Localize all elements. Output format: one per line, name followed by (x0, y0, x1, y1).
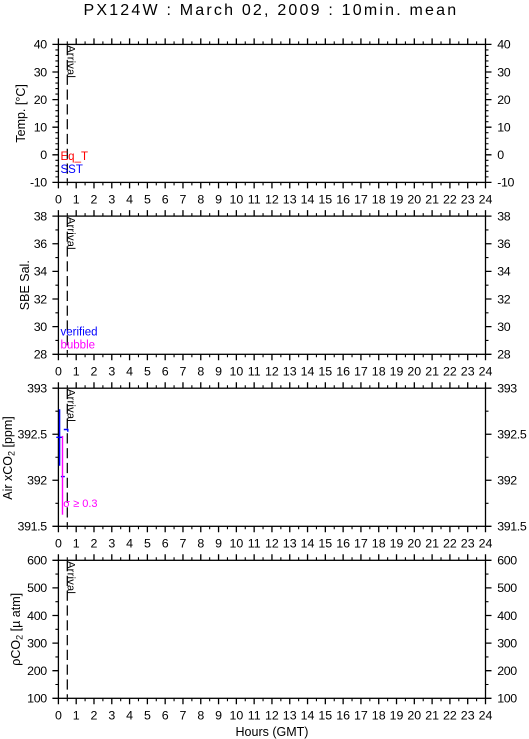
svg-text:14: 14 (301, 365, 315, 379)
svg-text:18: 18 (372, 709, 386, 723)
subplot 3 bottom axis major+minor x ticks (58, 526, 485, 532)
svg-text:Eq_T: Eq_T (61, 151, 89, 163)
svg-text:2: 2 (91, 365, 98, 379)
svg-text:3: 3 (108, 365, 115, 379)
subplot 3 left y tick labels (18, 382, 48, 534)
svg-text:3: 3 (108, 193, 115, 207)
svg-text:Hours (GMT): Hours (GMT) (236, 725, 309, 739)
svg-text:2: 2 (91, 193, 98, 207)
svg-text:10: 10 (34, 121, 48, 135)
svg-text:392: 392 (27, 474, 47, 488)
svg-text:0: 0 (55, 365, 62, 379)
svg-text:393: 393 (27, 382, 47, 396)
svg-text:Arrival: Arrival (64, 45, 76, 78)
svg-text:2: 2 (91, 537, 98, 551)
svg-text:9: 9 (215, 193, 222, 207)
svg-text:σ ≥ 0.3: σ ≥ 0.3 (63, 498, 97, 510)
svg-text:18: 18 (372, 537, 386, 551)
subplot 1 arrival dashed vertical line (66, 45, 68, 182)
subplot 4 right y tick labels (497, 554, 517, 706)
subplot 2 right y tick labels (497, 209, 511, 361)
subplot 4 x tick labels row (55, 709, 493, 723)
svg-text:ρCO2 [µ atm]: ρCO2 [µ atm] (9, 593, 25, 666)
svg-text:3: 3 (108, 709, 115, 723)
svg-text:200: 200 (27, 664, 47, 678)
svg-text:16: 16 (336, 537, 350, 551)
svg-text:23: 23 (461, 537, 475, 551)
svg-text:500: 500 (27, 581, 47, 595)
svg-text:10: 10 (497, 121, 511, 135)
subplot 1 bottom axis major+minor x ticks (58, 182, 485, 188)
svg-text:4: 4 (126, 709, 133, 723)
svg-text:verified: verified (61, 327, 98, 339)
svg-text:8: 8 (197, 537, 204, 551)
svg-text:10: 10 (230, 709, 244, 723)
svg-text:Arrival: Arrival (64, 217, 76, 250)
svg-text:15: 15 (318, 365, 332, 379)
svg-text:Arrival: Arrival (64, 389, 76, 422)
subplot 3 y major ticks (52, 388, 491, 526)
svg-text:24: 24 (479, 365, 493, 379)
svg-text:40: 40 (497, 38, 511, 52)
subplot 2 left y tick labels (34, 209, 48, 361)
svg-text:23: 23 (461, 193, 475, 207)
svg-text:22: 22 (443, 709, 457, 723)
svg-text:2: 2 (91, 709, 98, 723)
svg-text:21: 21 (425, 537, 439, 551)
svg-text:9: 9 (215, 709, 222, 723)
svg-text:10: 10 (230, 365, 244, 379)
svg-text:28: 28 (497, 348, 511, 362)
svg-text:391.5: 391.5 (497, 520, 527, 534)
subplot 3 frame (58, 388, 485, 526)
svg-text:0: 0 (55, 537, 62, 551)
svg-text:38: 38 (497, 209, 511, 223)
svg-text:24: 24 (479, 193, 493, 207)
svg-text:30: 30 (34, 320, 48, 334)
svg-text:600: 600 (497, 554, 517, 568)
svg-text:3: 3 (108, 537, 115, 551)
subplot 4 frame (58, 560, 485, 698)
subplot 3 magenta flagged data trace (62, 436, 64, 515)
svg-text:22: 22 (443, 365, 457, 379)
svg-text:6: 6 (162, 709, 169, 723)
svg-text:20: 20 (34, 93, 48, 107)
svg-text:13: 13 (283, 537, 297, 551)
svg-text:12: 12 (265, 193, 279, 207)
svg-text:12: 12 (265, 365, 279, 379)
svg-text:11: 11 (248, 193, 261, 207)
subplot 2 top axis major+minor x ticks (58, 210, 485, 216)
subplot 3 arrival dashed vertical line (66, 389, 68, 526)
svg-text:392.5: 392.5 (18, 428, 48, 442)
svg-text:4: 4 (126, 537, 133, 551)
subplot 1 x tick labels row (55, 193, 493, 207)
subplot 3 blue xCO2 data trace (56, 409, 68, 476)
subplot 1 y minor ticks (55, 50, 488, 177)
svg-text:32: 32 (34, 292, 48, 306)
svg-text:21: 21 (425, 365, 439, 379)
subplot 1 top axis major+minor x ticks (58, 38, 485, 44)
svg-text:0: 0 (40, 148, 47, 162)
svg-text:Air xCO2 [ppm]: Air xCO2 [ppm] (1, 416, 16, 500)
svg-text:17: 17 (354, 365, 368, 379)
svg-text:40: 40 (34, 38, 48, 52)
svg-text:16: 16 (336, 709, 350, 723)
svg-text:bubble: bubble (61, 340, 96, 352)
svg-text:1: 1 (73, 709, 80, 723)
svg-text:7: 7 (180, 193, 187, 207)
svg-text:300: 300 (27, 636, 47, 650)
subplot 2 bottom axis major+minor x ticks (58, 354, 485, 360)
svg-text:9: 9 (215, 537, 222, 551)
svg-text:5: 5 (144, 709, 151, 723)
svg-text:SBE Sal.: SBE Sal. (18, 260, 32, 310)
svg-text:1: 1 (73, 193, 80, 207)
svg-text:18: 18 (372, 365, 386, 379)
svg-text:32: 32 (497, 292, 511, 306)
svg-text:16: 16 (336, 365, 350, 379)
svg-text:13: 13 (283, 709, 297, 723)
svg-text:400: 400 (497, 609, 517, 623)
svg-text:20: 20 (407, 365, 421, 379)
svg-text:0: 0 (55, 193, 62, 207)
subplot 2 arrival dashed vertical line (66, 217, 68, 354)
subplot 4 top axis major+minor x ticks (58, 554, 485, 560)
svg-text:36: 36 (34, 237, 48, 251)
subplot 2 frame (58, 216, 485, 354)
svg-text:8: 8 (197, 365, 204, 379)
svg-text:200: 200 (497, 664, 517, 678)
svg-text:6: 6 (162, 193, 169, 207)
svg-text:PX124W : March 02, 2009 : 10mi: PX124W : March 02, 2009 : 10min. mean (83, 2, 458, 19)
svg-text:0: 0 (497, 148, 504, 162)
subplot 4 left y tick labels (27, 554, 47, 706)
subplot 3 x tick labels row (55, 537, 493, 551)
svg-text:11: 11 (248, 365, 261, 379)
svg-text:30: 30 (34, 65, 48, 79)
svg-text:14: 14 (301, 709, 315, 723)
svg-text:12: 12 (265, 709, 279, 723)
svg-text:23: 23 (461, 709, 475, 723)
svg-text:17: 17 (354, 709, 368, 723)
svg-text:10: 10 (230, 193, 244, 207)
svg-text:34: 34 (497, 265, 511, 279)
svg-text:15: 15 (318, 537, 332, 551)
svg-text:500: 500 (497, 581, 517, 595)
svg-text:10: 10 (230, 537, 244, 551)
subplot 1 frame (58, 44, 485, 182)
svg-text:600: 600 (27, 554, 47, 568)
subplot 3 y minor ticks (55, 411, 488, 503)
svg-text:4: 4 (126, 193, 133, 207)
svg-text:9: 9 (215, 365, 222, 379)
svg-text:30: 30 (497, 320, 511, 334)
svg-text:-10: -10 (30, 176, 47, 190)
subplot 2 y major ticks (52, 216, 491, 354)
svg-text:22: 22 (443, 537, 457, 551)
svg-text:300: 300 (497, 636, 517, 650)
svg-text:23: 23 (461, 365, 475, 379)
svg-text:100: 100 (497, 692, 517, 706)
svg-text:11: 11 (248, 537, 261, 551)
svg-text:13: 13 (283, 365, 297, 379)
svg-text:19: 19 (390, 709, 404, 723)
svg-text:11: 11 (248, 709, 261, 723)
svg-text:21: 21 (425, 709, 439, 723)
svg-text:20: 20 (497, 93, 511, 107)
svg-text:393: 393 (497, 382, 517, 396)
subplot 1 left y tick labels (30, 38, 47, 190)
svg-text:18: 18 (372, 193, 386, 207)
svg-text:38: 38 (34, 209, 48, 223)
svg-text:19: 19 (390, 193, 404, 207)
subplot 2 y minor ticks (55, 230, 488, 341)
svg-text:8: 8 (197, 709, 204, 723)
subplot 4 y minor ticks (55, 574, 488, 684)
svg-text:34: 34 (34, 265, 48, 279)
subplot 4 y major ticks (52, 560, 491, 698)
svg-text:5: 5 (144, 193, 151, 207)
svg-text:SST: SST (61, 164, 83, 176)
svg-text:20: 20 (407, 537, 421, 551)
svg-text:13: 13 (283, 193, 297, 207)
svg-text:6: 6 (162, 365, 169, 379)
svg-text:7: 7 (180, 537, 187, 551)
svg-text:17: 17 (354, 537, 368, 551)
svg-text:24: 24 (479, 537, 493, 551)
svg-text:30: 30 (497, 65, 511, 79)
svg-text:391.5: 391.5 (18, 520, 48, 534)
svg-text:1: 1 (73, 365, 80, 379)
svg-text:14: 14 (301, 537, 315, 551)
subplot 1 y major ticks (52, 44, 491, 182)
svg-text:36: 36 (497, 237, 511, 251)
svg-text:8: 8 (197, 193, 204, 207)
subplot 1 right y tick labels (497, 38, 514, 190)
svg-text:14: 14 (301, 193, 315, 207)
svg-text:28: 28 (34, 348, 48, 362)
svg-text:Arrival: Arrival (64, 561, 76, 594)
svg-text:17: 17 (354, 193, 368, 207)
svg-text:15: 15 (318, 193, 332, 207)
svg-text:5: 5 (144, 537, 151, 551)
svg-text:400: 400 (27, 609, 47, 623)
subplot 4 bottom axis major+minor x ticks (58, 698, 485, 704)
svg-text:20: 20 (407, 709, 421, 723)
subplot 3 top axis major+minor x ticks (58, 382, 485, 388)
svg-text:100: 100 (27, 692, 47, 706)
svg-text:7: 7 (180, 365, 187, 379)
svg-text:5: 5 (144, 365, 151, 379)
svg-text:21: 21 (425, 193, 439, 207)
svg-text:1: 1 (73, 537, 80, 551)
svg-text:-10: -10 (497, 176, 514, 190)
svg-text:15: 15 (318, 709, 332, 723)
svg-text:16: 16 (336, 193, 350, 207)
svg-text:392: 392 (497, 474, 517, 488)
subplot 3 right y tick labels (497, 382, 527, 534)
svg-text:392.5: 392.5 (497, 428, 527, 442)
svg-text:Temp. [°C]: Temp. [°C] (14, 84, 28, 142)
svg-text:12: 12 (265, 537, 279, 551)
svg-text:4: 4 (126, 365, 133, 379)
svg-text:7: 7 (180, 709, 187, 723)
svg-text:0: 0 (55, 709, 62, 723)
subplot 4 arrival dashed vertical line (66, 561, 68, 698)
svg-text:20: 20 (407, 193, 421, 207)
svg-text:24: 24 (479, 709, 493, 723)
svg-text:22: 22 (443, 193, 457, 207)
svg-text:19: 19 (390, 537, 404, 551)
svg-text:6: 6 (162, 537, 169, 551)
svg-text:19: 19 (390, 365, 404, 379)
subplot 2 x tick labels row (55, 365, 493, 379)
